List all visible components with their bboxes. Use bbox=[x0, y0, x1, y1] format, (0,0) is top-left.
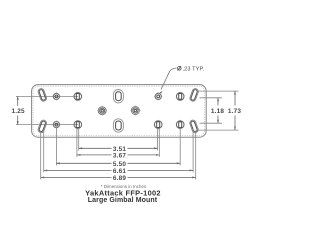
svg-text:5.50: 5.50 bbox=[113, 161, 126, 168]
svg-text:1.18: 1.18 bbox=[211, 108, 224, 115]
svg-text:1.73: 1.73 bbox=[228, 108, 241, 115]
svg-text:Large Gimbal Mount: Large Gimbal Mount bbox=[88, 197, 158, 204]
svg-text:.23 TYP.: .23 TYP. bbox=[183, 66, 205, 72]
svg-text:6.61: 6.61 bbox=[113, 168, 126, 175]
svg-text:1.25: 1.25 bbox=[11, 108, 24, 115]
svg-text:6.89: 6.89 bbox=[113, 175, 126, 182]
svg-text:3.67: 3.67 bbox=[113, 152, 126, 159]
